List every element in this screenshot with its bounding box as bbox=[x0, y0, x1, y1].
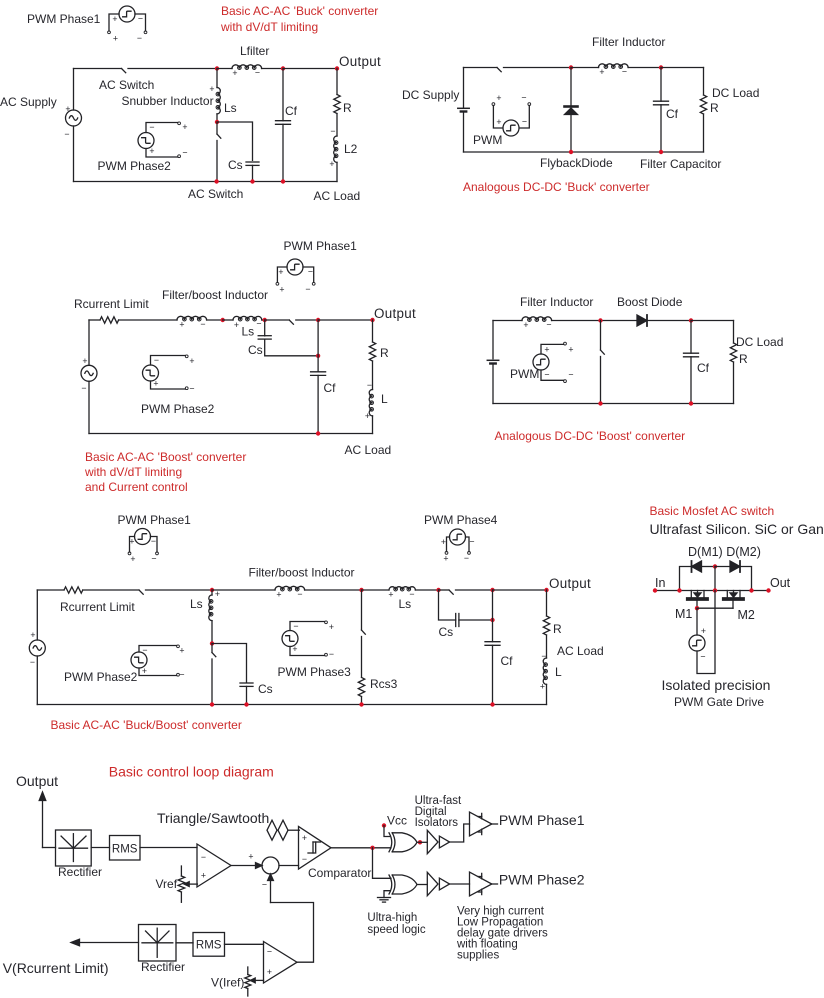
svg-text:Isolated precision: Isolated precision bbox=[662, 677, 771, 693]
svg-text:−: − bbox=[179, 670, 184, 680]
svg-text:Basic AC-AC 'Buck/Boost' conve: Basic AC-AC 'Buck/Boost' converter bbox=[51, 718, 242, 732]
svg-text:Filter Inductor: Filter Inductor bbox=[520, 295, 593, 309]
svg-text:with dV/dT limiting: with dV/dT limiting bbox=[220, 20, 318, 34]
svg-text:+: + bbox=[544, 345, 549, 355]
battery DC supply circuit4 bbox=[487, 321, 498, 404]
inductor Filter/boost circuit3 bbox=[177, 316, 207, 329]
svg-text:PWM Phase1: PWM Phase1 bbox=[284, 239, 358, 253]
svg-text:−: − bbox=[541, 651, 546, 661]
op-amp error amplifier bbox=[197, 844, 231, 887]
label Filter Inductor circuit2 bbox=[592, 35, 665, 49]
label Filter/boost Inductor circuit5 bbox=[249, 566, 355, 580]
PWM source PWM Phase1 circuit3 bbox=[276, 259, 315, 295]
wire to XOR2 bbox=[373, 848, 392, 879]
svg-text:+: + bbox=[267, 967, 272, 977]
heading Analogous DC-DC Buck converter bbox=[463, 180, 650, 194]
wire snubber to Cs bbox=[217, 122, 253, 160]
svg-text:+: + bbox=[234, 320, 239, 330]
node M1 drain bbox=[677, 588, 681, 592]
svg-text:−: − bbox=[329, 649, 334, 659]
label AC Switch upper bbox=[99, 78, 154, 92]
PWM source PWM Phase1 bbox=[108, 6, 147, 44]
wire bottom circuit5 bbox=[37, 704, 546, 706]
note very high current drivers bbox=[456, 906, 548, 962]
svg-text:−: − bbox=[521, 93, 526, 103]
note ultra-fast digital isolators bbox=[415, 795, 462, 829]
svg-text:AC Load: AC Load bbox=[345, 443, 392, 457]
svg-text:speed logic: speed logic bbox=[367, 924, 425, 936]
wire inductor to Cf bbox=[628, 67, 661, 69]
svg-text:−: − bbox=[469, 537, 474, 547]
svg-text:PWM Phase1: PWM Phase1 bbox=[27, 12, 101, 26]
node bottom flyback bbox=[569, 150, 573, 154]
svg-text:−: − bbox=[622, 67, 627, 77]
svg-text:−: − bbox=[568, 370, 573, 380]
svg-text:−: − bbox=[154, 355, 159, 365]
inductor Filter/boost circuit5 bbox=[275, 586, 305, 599]
svg-text:R: R bbox=[343, 101, 352, 115]
capacitor Cf circuit3 bbox=[311, 320, 326, 434]
svg-text:+: + bbox=[365, 411, 370, 421]
label PWM Phase1 circuit5 bbox=[118, 513, 192, 527]
wire to Filter Inductor bbox=[571, 67, 599, 69]
node bottom Cf circuit5 bbox=[490, 702, 494, 706]
node M2 drain bbox=[749, 588, 753, 592]
inductor Ls circuit3 bbox=[233, 316, 262, 330]
label L circuit3 bbox=[381, 392, 388, 406]
svg-text:+: + bbox=[209, 84, 214, 94]
capacitor Cf circuit4 bbox=[684, 321, 699, 404]
svg-text:−: − bbox=[464, 553, 469, 563]
label Output circuit1 bbox=[339, 54, 381, 69]
svg-text:+: + bbox=[65, 104, 70, 114]
svg-text:AC Supply: AC Supply bbox=[0, 95, 57, 109]
node Cs2 left bbox=[436, 588, 440, 592]
label DC Load circuit2 bbox=[712, 86, 759, 100]
svg-text:AC Load: AC Load bbox=[314, 189, 361, 203]
digital isolator upper bbox=[427, 830, 449, 853]
switch2 vertical circuit5 bbox=[212, 644, 216, 705]
potentiometer V(Iref) bbox=[245, 967, 264, 996]
label Vcc bbox=[387, 814, 407, 828]
wire top circuit2 left bbox=[464, 67, 498, 69]
svg-text:−: − bbox=[30, 657, 35, 667]
wire node to D(M2) bbox=[715, 566, 730, 568]
capacitor Cf circuit2 bbox=[654, 68, 669, 153]
label In bbox=[655, 576, 665, 590]
wire to Output circuit5 bbox=[493, 589, 547, 591]
label Cf circuit3 bbox=[324, 381, 337, 395]
source triangle/sawtooth bbox=[267, 820, 288, 840]
node Cs Cf join bbox=[316, 354, 320, 358]
inductor Lfilter bbox=[232, 65, 262, 78]
note ultra-high speed logic bbox=[367, 912, 425, 936]
node between inductors bbox=[221, 318, 225, 322]
inductor Filter Inductor circuit2 bbox=[599, 64, 629, 77]
svg-text:Analogous DC-DC 'Buck' convert: Analogous DC-DC 'Buck' converter bbox=[463, 180, 650, 194]
AC source AC Supply bbox=[64, 104, 81, 139]
svg-text:Output: Output bbox=[16, 773, 58, 789]
wire resistor to inductor bbox=[119, 319, 177, 321]
svg-text:−: − bbox=[367, 380, 372, 390]
diode D(M2) bbox=[730, 561, 740, 572]
svg-text:Comparator: Comparator bbox=[308, 866, 371, 880]
node gate M1 bbox=[695, 606, 699, 610]
wire XOR2 to isolator bbox=[417, 884, 427, 886]
svg-text:−: − bbox=[544, 370, 549, 380]
PWM source PWM Phase2 circuit1 bbox=[138, 122, 188, 158]
svg-text:+: + bbox=[179, 646, 184, 656]
label R circuit1 bbox=[343, 101, 352, 115]
XOR gate lower bbox=[389, 875, 417, 894]
svg-text:Output: Output bbox=[339, 54, 381, 69]
label Rcurrent Limit circuit5 bbox=[60, 600, 135, 614]
wire rectifier2 to RMS2 bbox=[176, 942, 193, 944]
svg-text:+: + bbox=[130, 554, 135, 564]
label R circuit3 bbox=[380, 346, 389, 360]
label PWM Phase2 circuit3 bbox=[141, 402, 215, 416]
svg-text:−: − bbox=[200, 319, 205, 329]
label PWM circuit2 bbox=[473, 133, 502, 147]
wire arrow to rectifier bbox=[43, 847, 56, 849]
switch AC Switch top bbox=[122, 69, 126, 73]
svg-text:Analogous DC-DC 'Boost' conver: Analogous DC-DC 'Boost' converter bbox=[495, 429, 686, 443]
svg-text:−: − bbox=[81, 383, 86, 393]
resistor R load circuit1 bbox=[334, 69, 340, 137]
svg-text:M2: M2 bbox=[738, 608, 755, 622]
inductor Filter Inductor circuit4 bbox=[522, 317, 552, 330]
label R circuit2 bbox=[710, 101, 719, 115]
svg-text:PWM Phase2: PWM Phase2 bbox=[499, 872, 585, 888]
resistor Rcurrent Limit circuit5 bbox=[64, 587, 83, 593]
svg-text:PWM Phase2: PWM Phase2 bbox=[141, 402, 215, 416]
svg-text:In: In bbox=[655, 576, 665, 590]
svg-text:−: − bbox=[138, 14, 143, 24]
label Cf circuit4 bbox=[697, 361, 710, 375]
svg-text:+: + bbox=[496, 93, 501, 103]
capacitor Cs circuit3 bbox=[258, 320, 318, 356]
wire to Ls bbox=[223, 319, 233, 321]
svg-text:−: − bbox=[302, 854, 307, 864]
wire supply top bbox=[73, 69, 75, 111]
svg-text:+: + bbox=[248, 852, 253, 862]
wire XOR1 to isolator bbox=[417, 841, 427, 843]
svg-text:PWM Phase1: PWM Phase1 bbox=[499, 812, 585, 828]
svg-text:−: − bbox=[262, 880, 267, 890]
label Rectifier 2 bbox=[141, 960, 185, 974]
label Output circuit5 bbox=[549, 576, 591, 591]
node Vcc bbox=[382, 823, 386, 827]
label Cs2 circuit5 bbox=[439, 625, 454, 639]
wire Ls to node bbox=[262, 319, 265, 321]
node switch top circuit4 bbox=[598, 318, 602, 322]
svg-text:PWM Phase4: PWM Phase4 bbox=[424, 513, 498, 527]
svg-text:Lfilter: Lfilter bbox=[240, 44, 269, 58]
wire inductor2 to node circuit5 bbox=[305, 589, 362, 591]
wire comparator out bbox=[331, 847, 391, 849]
node Cf top circuit2 bbox=[659, 65, 663, 69]
wire isolator to driver 2 bbox=[450, 883, 470, 885]
label Boost Diode bbox=[617, 295, 683, 309]
gate driver upper bbox=[470, 812, 498, 836]
label Output circuit3 bbox=[374, 306, 416, 321]
wire rectifier to RMS bbox=[91, 847, 109, 849]
wire current amp feedback loop bbox=[271, 903, 314, 963]
svg-text:AC Load: AC Load bbox=[557, 644, 604, 658]
capacitor Cf circuit1 bbox=[276, 69, 291, 182]
svg-text:+: + bbox=[443, 554, 448, 564]
wire diode to Cf bbox=[647, 320, 691, 322]
svg-text:+: + bbox=[701, 626, 706, 636]
svg-text:R: R bbox=[380, 346, 389, 360]
label Isolated precision bbox=[662, 677, 771, 693]
label Cf circuit2 bbox=[666, 107, 679, 121]
node Cf top circuit3 bbox=[316, 318, 320, 322]
capacitor Cs circuit1 bbox=[246, 162, 259, 182]
svg-text:−: − bbox=[293, 621, 298, 631]
label Rcurrent Limit circuit3 bbox=[74, 297, 149, 311]
svg-text:PWM Phase1: PWM Phase1 bbox=[118, 513, 192, 527]
heading Basic control loop diagram bbox=[109, 764, 274, 780]
XOR gate upper bbox=[389, 833, 417, 852]
svg-text:−: − bbox=[189, 384, 194, 394]
svg-text:−: − bbox=[267, 947, 272, 957]
resistor R circuit3 bbox=[369, 320, 375, 390]
switch vertical circuit4 bbox=[601, 321, 605, 404]
summing junction bbox=[262, 857, 279, 874]
capacitor Cs1 circuit5 bbox=[240, 683, 253, 705]
wire summer to comparator bbox=[279, 865, 299, 867]
diode Boost Diode bbox=[637, 315, 647, 326]
label PWM Phase1 control bbox=[499, 812, 585, 828]
svg-text:RMS: RMS bbox=[196, 940, 222, 952]
switch AC Switch vertical bbox=[217, 122, 221, 182]
svg-text:−: − bbox=[137, 33, 142, 43]
svg-text:FlybackDiode: FlybackDiode bbox=[540, 156, 613, 170]
resistor R circuit5 bbox=[543, 590, 549, 658]
wire supply bottom bbox=[73, 126, 75, 182]
heading Analogous DC-DC Boost converter bbox=[495, 429, 686, 443]
wire switch to diode node bbox=[504, 67, 572, 69]
wire isolator to driver 1 bbox=[450, 824, 470, 842]
svg-text:Ls: Ls bbox=[190, 597, 203, 611]
node Rcs3 top bbox=[359, 588, 363, 592]
svg-text:+: + bbox=[182, 122, 187, 132]
inductor L2 load bbox=[329, 126, 337, 182]
label PWM Phase1 circuit3 bbox=[284, 239, 358, 253]
label Rectifier 1 bbox=[58, 865, 102, 879]
svg-text:+: + bbox=[153, 379, 158, 389]
node flyback top bbox=[569, 65, 573, 69]
op-amp current error amplifier bbox=[264, 942, 298, 984]
node bottom Cf circuit3 bbox=[316, 431, 320, 435]
svg-text:+: + bbox=[540, 682, 545, 692]
svg-text:R: R bbox=[710, 101, 719, 115]
svg-text:−: − bbox=[151, 536, 156, 546]
svg-text:R: R bbox=[553, 622, 562, 636]
rectifier block 1 bbox=[56, 830, 92, 866]
svg-text:Rectifier: Rectifier bbox=[58, 865, 102, 879]
label Output control bbox=[16, 773, 58, 789]
wire node to inductor2 circuit5 bbox=[212, 589, 275, 591]
svg-text:−: − bbox=[546, 320, 551, 330]
svg-text:+: + bbox=[388, 590, 393, 600]
svg-text:−: − bbox=[149, 122, 154, 132]
label DC Supply bbox=[402, 88, 459, 102]
svg-text:+: + bbox=[30, 630, 35, 640]
wire and switch1 circuit5 bbox=[83, 590, 212, 594]
op-amp comparator bbox=[299, 827, 332, 870]
RMS block 1 bbox=[110, 836, 141, 861]
svg-text:+: + bbox=[112, 14, 117, 24]
switch circuit3 bbox=[265, 320, 318, 324]
rectifier block 2 bbox=[139, 925, 177, 962]
node bottom Rcs3 bbox=[359, 702, 363, 706]
svg-text:Filter Inductor: Filter Inductor bbox=[592, 35, 665, 49]
svg-text:−: − bbox=[522, 117, 527, 127]
inductor L circuit5 bbox=[540, 651, 547, 705]
PWM source PWM Phase1 circuit5 bbox=[128, 529, 158, 565]
svg-text:+: + bbox=[201, 871, 206, 881]
svg-text:+: + bbox=[441, 537, 446, 547]
wire gate link bbox=[697, 607, 733, 609]
svg-text:DC Load: DC Load bbox=[712, 86, 759, 100]
arrow V(Rcurrent Limit) bbox=[71, 939, 139, 946]
svg-text:+: + bbox=[292, 644, 297, 654]
svg-text:Rcurrent Limit: Rcurrent Limit bbox=[60, 600, 135, 614]
svg-text:V(Iref): V(Iref) bbox=[211, 976, 244, 990]
svg-text:−: − bbox=[700, 652, 705, 662]
label AC Switch lower bbox=[188, 187, 243, 201]
svg-text:−: − bbox=[182, 148, 187, 158]
inductor Ls1 circuit5 bbox=[209, 589, 220, 644]
node XOR1 out bbox=[418, 840, 422, 844]
node bottom sw2 bbox=[210, 702, 214, 706]
label Cf circuit1 bbox=[285, 104, 298, 118]
node Cf top bbox=[281, 66, 285, 70]
switch circuit2 bbox=[497, 68, 501, 72]
svg-text:+: + bbox=[302, 833, 307, 843]
svg-text:Ls: Ls bbox=[399, 597, 412, 611]
svg-text:Cf: Cf bbox=[501, 654, 514, 668]
svg-text:Cf: Cf bbox=[666, 107, 679, 121]
svg-text:−: − bbox=[64, 129, 69, 139]
svg-text:Ls: Ls bbox=[242, 325, 255, 339]
label Snubber Inductor bbox=[122, 94, 214, 108]
label M1 bbox=[675, 607, 692, 621]
wire top circuit3 left bbox=[89, 319, 100, 321]
svg-text:L: L bbox=[555, 665, 562, 679]
RMS block 2 bbox=[193, 933, 225, 957]
PWM source PWM Phase2 circuit3 bbox=[143, 355, 195, 394]
node Cf bottom circuit4 bbox=[689, 401, 693, 405]
svg-text:Ls: Ls bbox=[224, 101, 237, 115]
node Cs top circuit3 bbox=[263, 318, 267, 322]
node Ls1 top circuit5 bbox=[210, 588, 214, 592]
wire sawtooth to comparator bbox=[288, 829, 299, 831]
label PWM Phase1 bbox=[27, 12, 101, 26]
svg-text:Output: Output bbox=[374, 306, 416, 321]
label V(Iref) bbox=[211, 976, 244, 990]
svg-text:Cf: Cf bbox=[324, 381, 337, 395]
svg-text:PWM Phase3: PWM Phase3 bbox=[278, 665, 352, 679]
label PWM Phase2 circuit1 bbox=[98, 159, 172, 173]
svg-text:Basic Mosfet AC switch: Basic Mosfet AC switch bbox=[650, 504, 775, 518]
wire diode row right bbox=[740, 567, 752, 591]
label R circuit4 bbox=[739, 352, 748, 366]
switch3 vertical circuit5 bbox=[362, 590, 366, 677]
svg-text:with dV/dT limiting: with dV/dT limiting bbox=[84, 465, 182, 479]
node between diodes bbox=[713, 564, 717, 568]
svg-text:Cs: Cs bbox=[439, 625, 454, 639]
label AC Load circuit3 bbox=[345, 443, 392, 457]
svg-text:−: − bbox=[142, 645, 147, 655]
node mid bbox=[713, 588, 717, 592]
svg-text:Rcs3: Rcs3 bbox=[370, 677, 398, 691]
svg-text:Vcc: Vcc bbox=[387, 814, 407, 828]
transistor M2 bbox=[724, 591, 743, 609]
label Triangle/Sawtooth bbox=[157, 810, 269, 826]
node Cf top circuit4 bbox=[689, 318, 693, 322]
heading Basic Mosfet AC switch bbox=[650, 504, 775, 518]
capacitor Cf circuit5 bbox=[485, 590, 500, 705]
battery DC Supply bbox=[458, 68, 469, 153]
wire diode mid drop bbox=[714, 567, 716, 591]
diode FlybackDiode bbox=[565, 68, 578, 153]
node bottom Cs1 bbox=[244, 702, 248, 706]
node Ls1 bottom bbox=[210, 641, 214, 645]
node switch bottom circuit4 bbox=[598, 401, 602, 405]
svg-text:+: + bbox=[149, 146, 154, 156]
node Cf top circuit5 bbox=[490, 588, 494, 592]
svg-text:supplies: supplies bbox=[457, 950, 499, 962]
svg-text:AC Switch: AC Switch bbox=[188, 187, 243, 201]
svg-text:PWM Phase2: PWM Phase2 bbox=[98, 159, 172, 173]
svg-text:Cs: Cs bbox=[248, 343, 263, 357]
wire D(M1) to node bbox=[702, 566, 716, 568]
svg-text:D(M1) D(M2): D(M1) D(M2) bbox=[688, 545, 761, 559]
svg-text:+: + bbox=[329, 159, 334, 169]
wire bottom circuit3 bbox=[89, 433, 373, 435]
svg-text:Basic AC-AC 'Buck' converter: Basic AC-AC 'Buck' converter bbox=[221, 4, 378, 18]
svg-text:Out: Out bbox=[770, 576, 791, 590]
svg-text:R: R bbox=[739, 352, 748, 366]
wire bottom circuit4 bbox=[493, 403, 734, 405]
potentiometer Vref bbox=[178, 866, 197, 902]
svg-text:−: − bbox=[255, 68, 260, 78]
node In bbox=[653, 588, 657, 592]
node Output circuit5 bbox=[544, 588, 548, 592]
svg-text:−: − bbox=[151, 554, 156, 564]
resistor R DC Load circuit4 bbox=[730, 321, 736, 404]
wire error amp to summer bbox=[231, 852, 262, 869]
label M2 bbox=[738, 608, 755, 622]
label FlybackDiode bbox=[540, 156, 613, 170]
label Comparator bbox=[308, 866, 371, 880]
wire RMS2 to current amp bbox=[225, 943, 264, 945]
svg-text:+: + bbox=[189, 356, 194, 366]
label AC Supply bbox=[0, 95, 57, 109]
svg-text:L: L bbox=[381, 392, 388, 406]
capacitor Cs2 circuit5 bbox=[439, 590, 493, 627]
svg-text:+: + bbox=[599, 67, 604, 77]
PWM source PWM Phase4 bbox=[441, 529, 475, 564]
svg-text:Cf: Cf bbox=[697, 361, 710, 375]
svg-text:−: − bbox=[201, 852, 206, 862]
svg-text:+: + bbox=[142, 666, 147, 676]
PWM source PWM Phase3 bbox=[282, 621, 334, 659]
svg-text:−: − bbox=[256, 319, 261, 329]
